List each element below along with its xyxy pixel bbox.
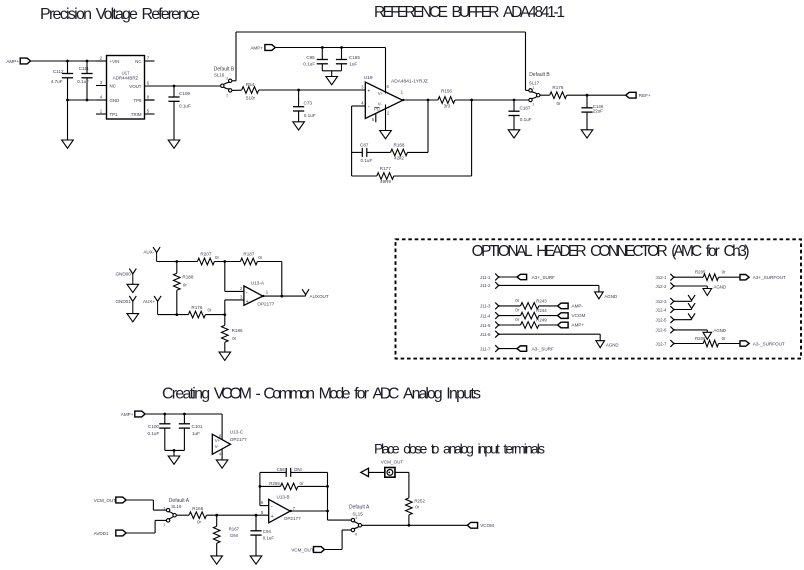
- svg-text:PrecisionVoltageReference: PrecisionVoltageReference: [40, 6, 200, 23]
- svg-text:J11-2: J11-2: [480, 283, 491, 288]
- svg-text:AUX+: AUX+: [143, 299, 155, 304]
- wire J11-3 to R243: [499, 305, 521, 307]
- ground (C73): [293, 122, 305, 130]
- svg-text:3r3: 3r3: [444, 104, 451, 109]
- svg-text:V-: V-: [215, 444, 220, 449]
- svg-text:22uF: 22uF: [593, 109, 603, 114]
- resistor R252 0r: [408, 515, 410, 525]
- wire J12-3 open: [674, 300, 692, 302]
- svg-text:0r: 0r: [515, 298, 519, 303]
- resistor R156 3r3: [438, 97, 455, 104]
- svg-text:C73: C73: [304, 101, 313, 106]
- wire feedback right leg to output: [327, 472, 329, 511]
- ground AGND (J12-2): [706, 286, 708, 289]
- svg-text:0r: 0r: [208, 307, 212, 312]
- wire J12-6 to AGND: [674, 329, 708, 331]
- svg-text:A3-_SURF: A3-_SURF: [532, 347, 554, 352]
- svg-text:R255: R255: [269, 481, 280, 486]
- capacitor C87 0.1uF: [361, 148, 363, 157]
- svg-text:AGND: AGND: [605, 294, 618, 299]
- wire R205 to A3+_SURFOUT: [719, 276, 741, 278]
- svg-text:J12-3: J12-3: [656, 299, 668, 304]
- node VOUT junction: [173, 85, 176, 88]
- svg-text:NC: NC: [110, 83, 116, 88]
- wire to U13-A pin 2: [224, 262, 226, 292]
- svg-text:U13-C: U13-C: [230, 429, 244, 434]
- svg-text:U13-B: U13-B: [277, 495, 290, 500]
- wire SL16 top pad to feedback rail: [232, 80, 236, 82]
- wire R206 to A3-_SURFOUT: [719, 343, 741, 345]
- node C146 junction: [586, 94, 589, 97]
- wire J11-4 to R244: [499, 315, 521, 317]
- connector A3-_SURFOUT: [740, 341, 749, 346]
- wire supply caps to ground: [322, 70, 341, 72]
- svg-text:-: -: [271, 504, 273, 510]
- wire feedback top rail: [236, 31, 526, 33]
- wire U13-A output to AUXOUT: [263, 295, 306, 297]
- resistor R206 0r: [703, 340, 718, 347]
- svg-text:R243: R243: [536, 299, 547, 304]
- wire R54 to U19 +input: [259, 89, 366, 91]
- port J12-4 stub: [688, 303, 695, 308]
- node C94 junction: [255, 514, 258, 517]
- svg-text:J12-4: J12-4: [656, 307, 668, 312]
- wire R178 to REF+: [567, 94, 626, 96]
- svg-text:R186: R186: [232, 328, 243, 333]
- svg-text:+: +: [271, 514, 274, 520]
- svg-text:J11-4: J11-4: [480, 313, 491, 318]
- wire U13-C V- to ground: [221, 449, 223, 460]
- svg-text:2: 2: [226, 94, 228, 98]
- svg-text:3: 3: [164, 507, 166, 511]
- svg-text:J12-2: J12-2: [656, 284, 668, 289]
- ground AGND (J11-2): [598, 285, 600, 292]
- svg-text:C94: C94: [263, 529, 272, 534]
- capacitor C56 DNI feedback: [260, 471, 286, 473]
- svg-text:GND00: GND00: [115, 271, 131, 276]
- svg-text:V+: V+: [215, 438, 221, 443]
- svg-text:REF+: REF+: [639, 93, 651, 98]
- capacitor C73 0.1uF: [298, 90, 300, 107]
- svg-text:C111: C111: [79, 66, 90, 71]
- svg-text:J12-5: J12-5: [656, 318, 668, 323]
- resistor R176 0r: [188, 311, 205, 318]
- wire J12-7 to R206: [674, 343, 703, 345]
- svg-text:R207: R207: [200, 252, 211, 257]
- wire AMP+ supply rail to U19 V+: [276, 47, 386, 49]
- wire R168 to output node: [407, 151, 428, 153]
- wire U19 output: [403, 99, 438, 101]
- svg-text:OP2177: OP2177: [230, 437, 247, 442]
- connector REF+ (output flag): [626, 92, 636, 98]
- svg-text:R187: R187: [243, 252, 254, 257]
- svg-text:0.1uF: 0.1uF: [77, 79, 89, 84]
- svg-text:0r: 0r: [722, 270, 726, 275]
- svg-text:0.1uF: 0.1uF: [304, 113, 316, 118]
- svg-text:R54: R54: [246, 82, 255, 87]
- svg-text:C100: C100: [148, 424, 159, 429]
- svg-text:+: +: [367, 88, 370, 94]
- wire SL15 common to VCOM: [362, 524, 468, 526]
- svg-text:0r: 0r: [515, 308, 519, 313]
- wire R156 to SL17: [455, 99, 529, 101]
- svg-text:GND: GND: [110, 98, 120, 103]
- resistor R166 0r: [189, 512, 207, 519]
- svg-text:49R9: 49R9: [380, 179, 391, 184]
- svg-text:0r: 0r: [258, 255, 262, 260]
- ground AGND (J11-6): [599, 334, 601, 341]
- op-amp U13-C OP2177 power section: [212, 434, 230, 454]
- svg-text:TRIM: TRIM: [131, 112, 142, 117]
- wire VCM_OUT to SL19 top pad: [126, 499, 153, 501]
- svg-text:J11-3: J11-3: [480, 304, 491, 309]
- svg-text:0.1uF: 0.1uF: [361, 158, 373, 163]
- svg-text:0r: 0r: [556, 101, 561, 106]
- svg-text:AMP+: AMP+: [250, 45, 263, 50]
- resistor R188 0r: [176, 262, 178, 274]
- op-amp U19 ADA4841-1YRJZ: [365, 82, 402, 118]
- resistor R167 DNI: [216, 515, 218, 526]
- svg-text:AMP+: AMP+: [572, 323, 585, 328]
- svg-text:V-: V-: [378, 101, 383, 106]
- svg-text:C167: C167: [520, 106, 531, 111]
- ground (input caps): [67, 100, 69, 140]
- ground (C94): [250, 556, 262, 564]
- svg-text:R188: R188: [182, 275, 193, 280]
- ground (R167): [211, 556, 223, 564]
- svg-text:0.1uF: 0.1uF: [263, 535, 275, 540]
- svg-text:J11-7: J11-7: [480, 346, 491, 351]
- svg-text:1uF: 1uF: [349, 62, 357, 67]
- svg-text:A3-_SURFOUT: A3-_SURFOUT: [753, 341, 785, 346]
- resistor R205 0r: [703, 274, 718, 281]
- svg-text:OP2177: OP2177: [257, 302, 274, 307]
- wire R207 to inverting node: [214, 261, 240, 263]
- svg-text:AUX-: AUX-: [143, 249, 154, 254]
- ground AGND (J12-6): [706, 330, 708, 332]
- svg-text:R167: R167: [229, 527, 240, 532]
- pin 5 PD stub: [375, 113, 377, 122]
- svg-text:AUXOUT: AUXOUT: [310, 294, 329, 299]
- svg-text:TP8: TP8: [133, 98, 142, 103]
- op-amp U13-B OP2177: [269, 499, 291, 522]
- wire R243 to AMP-: [539, 305, 558, 307]
- arrow off-page left: [361, 468, 369, 476]
- svg-text:C87: C87: [360, 142, 369, 147]
- wire feedback branch C87/R168: [352, 151, 363, 153]
- svg-text:C109: C109: [179, 91, 190, 96]
- svg-text:R249: R249: [536, 318, 547, 323]
- wire test point to arrow: [369, 471, 385, 473]
- capacitor C95 0.1uF: [321, 48, 323, 60]
- wire SL17 common to R178: [540, 94, 550, 96]
- resistor R177 49R9: [352, 175, 377, 177]
- svg-text:0r: 0r: [515, 317, 519, 322]
- svg-text:0r: 0r: [722, 336, 726, 341]
- wire SL16 bottom pad to R54: [232, 89, 242, 91]
- svg-text:R205: R205: [695, 270, 706, 275]
- svg-text:4.7uF: 4.7uF: [51, 79, 63, 84]
- svg-text:0r: 0r: [215, 255, 219, 260]
- port AUXOUT: [302, 289, 309, 294]
- capacitor C111 0.1uF: [86, 61, 88, 74]
- svg-text:C165: C165: [349, 55, 360, 60]
- wire J11-6 to AGND: [499, 333, 601, 335]
- svg-text:C112: C112: [53, 69, 64, 74]
- svg-text:NC: NC: [135, 59, 141, 64]
- wire R252 to test point: [395, 471, 409, 473]
- op-amp U13-A OP2177: [244, 286, 263, 305]
- svg-text:AVDD1: AVDD1: [94, 531, 109, 536]
- node feedback junction: [280, 295, 283, 298]
- node R255 right junction: [326, 485, 329, 488]
- svg-text:42k2: 42k2: [394, 155, 404, 160]
- svg-text:J11-6: J11-6: [480, 332, 491, 337]
- svg-text:C56: C56: [277, 467, 286, 472]
- svg-text:V+: V+: [378, 91, 384, 96]
- resistor R255 0r feedback: [260, 485, 281, 487]
- svg-text:VCOM: VCOM: [572, 313, 586, 318]
- svg-text:3: 3: [226, 76, 228, 80]
- dashed box optional header connector: [396, 239, 802, 358]
- node C73 junction: [297, 89, 300, 92]
- svg-text:VCM_OUT: VCM_OUT: [381, 459, 404, 464]
- svg-text:AGND: AGND: [713, 284, 726, 289]
- svg-text:AGND: AGND: [713, 328, 726, 333]
- wire R187 to output node: [257, 261, 281, 263]
- wire U17 VOUT to SL16: [145, 85, 221, 87]
- ground (U13-C V-): [216, 460, 228, 468]
- svg-text:0r: 0r: [183, 282, 187, 287]
- wire R249 to AMP+: [539, 324, 558, 326]
- svg-text:CreatingVCOM-CommonModeforADCA: CreatingVCOM-CommonModeforADCAnalogInput…: [162, 386, 481, 403]
- svg-text:AMP+: AMP+: [121, 412, 134, 417]
- svg-text:VOUT: VOUT: [129, 84, 142, 89]
- wire AMP+ supply to U13-C V+: [145, 413, 222, 415]
- node R188 bottom junction: [175, 313, 178, 316]
- svg-text:DNI: DNI: [230, 533, 238, 538]
- wire J12-4 open: [674, 309, 692, 311]
- svg-text:VCM_OUT: VCM_OUT: [291, 547, 314, 552]
- svg-text:Placeclosetoanaloginputtermina: Placeclosetoanaloginputterminals: [374, 440, 545, 456]
- svg-text:J12-1: J12-1: [656, 275, 668, 280]
- capacitor C100 0.1uF: [164, 414, 166, 424]
- svg-text:AGND: AGND: [606, 343, 619, 348]
- svg-text:SL15: SL15: [352, 512, 363, 517]
- connector AMP-: [558, 303, 569, 309]
- svg-text:R178: R178: [552, 85, 563, 90]
- IC U17 ADR444BRZ: [107, 56, 145, 120]
- svg-text:1uF: 1uF: [192, 431, 200, 436]
- ground (GND01): [127, 314, 139, 322]
- svg-text:2: 2: [533, 103, 535, 107]
- svg-text:R176: R176: [191, 305, 202, 310]
- svg-text:1: 1: [533, 86, 535, 90]
- wire SL15 bottom pad to VCM_OUT flag: [342, 529, 351, 531]
- svg-text:ADR444BRZ: ADR444BRZ: [113, 76, 139, 81]
- node R167 junction: [215, 514, 218, 517]
- svg-text:2: 2: [164, 523, 166, 527]
- ground (U19 V-): [380, 131, 392, 139]
- svg-text:0r: 0r: [300, 481, 304, 486]
- svg-text:R168: R168: [394, 142, 405, 147]
- resistor R187 0r feedback: [240, 258, 257, 265]
- port J12-5 stub: [688, 313, 695, 318]
- node output junction: [427, 99, 430, 102]
- wire R177 to post-R156 node: [394, 175, 472, 177]
- svg-text:J12-6: J12-6: [656, 328, 668, 333]
- wire ground rail to U17 GND pin: [68, 99, 107, 101]
- wire SL19 common to R166: [176, 514, 189, 516]
- svg-text:TP1: TP1: [110, 112, 119, 117]
- svg-text:510r: 510r: [246, 96, 256, 101]
- node R255 left junction: [259, 485, 262, 488]
- svg-text:R252: R252: [414, 498, 425, 503]
- svg-text:GND01: GND01: [115, 299, 131, 304]
- svg-text:U13-A: U13-A: [251, 280, 265, 285]
- svg-text:-: -: [368, 104, 370, 110]
- wire J11-7 to A3-_SURF: [499, 348, 517, 350]
- svg-text:0r: 0r: [197, 520, 202, 525]
- svg-text:R244: R244: [536, 308, 547, 313]
- connector A3+_SURFOUT: [740, 275, 749, 280]
- wire J11-1 to A3+_SURF: [499, 276, 517, 278]
- svg-text:SL17: SL17: [529, 81, 540, 86]
- svg-text:C95: C95: [306, 55, 315, 60]
- wire rail to SL17 top pad: [525, 32, 527, 90]
- svg-text:0r: 0r: [232, 336, 236, 341]
- ground (GND00): [127, 284, 139, 292]
- wire R176 to non-inverting node: [205, 314, 224, 316]
- wire J12-5 open: [674, 319, 692, 321]
- svg-text:C101: C101: [192, 424, 203, 429]
- wire U19 V- to ground: [385, 105, 387, 131]
- ground (R186): [219, 352, 231, 360]
- capacitor C167 0.1uF: [513, 100, 515, 111]
- svg-text:VCOM: VCOM: [480, 523, 494, 528]
- svg-text:R177: R177: [380, 166, 391, 171]
- resistor R207 0r: [197, 258, 214, 265]
- ground (C146): [581, 130, 593, 138]
- wire J12-1 to R205: [674, 276, 703, 278]
- svg-text:DNI: DNI: [294, 467, 302, 472]
- svg-text:0.1uF: 0.1uF: [179, 104, 191, 109]
- resistor R249 0r: [521, 322, 539, 329]
- connector VCOM (output flag): [467, 522, 477, 528]
- svg-text:-: -: [246, 290, 248, 296]
- svg-text:+: +: [246, 299, 249, 305]
- resistor R168 42k2: [391, 149, 408, 156]
- capacitor C109 0.1uF: [173, 86, 175, 97]
- svg-text:OP2177: OP2177: [284, 516, 301, 521]
- svg-text:Default A: Default A: [349, 505, 370, 511]
- node C167 junction: [513, 99, 516, 102]
- wire J11-5 to R249: [499, 324, 521, 326]
- svg-text:SL19: SL19: [171, 504, 182, 509]
- wire AVDD1 to SL19 bottom pad: [126, 532, 155, 534]
- svg-text:0.1uF: 0.1uF: [520, 117, 532, 122]
- svg-text:R156: R156: [441, 89, 452, 94]
- svg-text:+VIN: +VIN: [110, 59, 120, 64]
- svg-text:J11-5: J11-5: [480, 323, 491, 328]
- svg-text:OPTIONALHEADERCONNECTOR(AMCfor: OPTIONALHEADERCONNECTOR(AMCforCh3): [472, 243, 750, 260]
- svg-text:ADA4841-1YRJZ: ADA4841-1YRJZ: [391, 79, 428, 85]
- node R188 top junction: [175, 260, 178, 263]
- wire AUX- to R207: [157, 261, 198, 263]
- svg-text:REFERENCEBUFFERADA4841-1: REFERENCEBUFFERADA4841-1: [374, 4, 565, 21]
- resistor R178 0r: [550, 92, 567, 99]
- wire U13-B pin6 to feedback: [260, 505, 269, 507]
- resistor R186 0r: [224, 315, 226, 326]
- svg-text:AMP+: AMP+: [6, 59, 19, 64]
- svg-text:U19: U19: [364, 75, 373, 81]
- svg-text:6: 6: [356, 516, 358, 520]
- ground (supply caps): [326, 77, 338, 85]
- wire J11-2 to AGND: [499, 284, 599, 286]
- svg-text:Default B: Default B: [529, 72, 550, 78]
- wire supply caps ground rail: [165, 449, 185, 451]
- svg-text:R206: R206: [695, 336, 706, 341]
- node inverting junction: [223, 260, 226, 263]
- port J12-3 stub: [688, 295, 695, 300]
- node junction C111: [86, 60, 89, 63]
- wire R244 to VCOM: [539, 315, 558, 317]
- capacitor C146 2.2uF: [586, 95, 588, 108]
- svg-text:R166: R166: [192, 506, 203, 511]
- wire U13-B output to SL15: [290, 510, 327, 512]
- capacitor C165 1uF: [341, 48, 343, 60]
- ground (C100/C101): [168, 456, 180, 464]
- svg-text:J11-1: J11-1: [480, 275, 491, 280]
- resistor R243 0r: [521, 303, 539, 310]
- capacitor C94 0.1uF: [255, 515, 257, 531]
- connector A3+_SURF: [517, 274, 527, 279]
- ground (C109): [168, 140, 180, 148]
- resistor R244 0r: [521, 312, 539, 319]
- wire J12-2 to AGND: [674, 285, 708, 287]
- wire C87 to R168: [367, 151, 391, 153]
- node R177 junction: [470, 99, 473, 102]
- wire U19 inverting input to feedback: [352, 105, 366, 107]
- svg-text:A3+_SURFOUT: A3+_SURFOUT: [753, 275, 786, 280]
- capacitor C112 4.7uF: [67, 61, 69, 74]
- svg-text:0r: 0r: [415, 505, 419, 510]
- svg-text:0.1uF: 0.1uF: [148, 431, 160, 436]
- svg-text:SL16: SL16: [214, 73, 225, 78]
- node R252 junction: [408, 524, 411, 527]
- resistor R54 510r: [242, 87, 259, 94]
- ground (C167): [508, 130, 520, 138]
- svg-text:8: 8: [355, 533, 357, 537]
- wire R166 to U13-B +input: [207, 514, 269, 516]
- connector VCOM: [558, 313, 569, 319]
- svg-text:VCM_OUT: VCM_OUT: [94, 498, 117, 503]
- capacitor C101 1uF: [183, 414, 185, 424]
- svg-text:0.1uF: 0.1uF: [303, 62, 315, 67]
- node non-inverting junction: [223, 313, 226, 316]
- svg-text:A3+_SURF: A3+_SURF: [532, 275, 556, 280]
- connector A3-_SURF: [517, 346, 527, 351]
- connector AMP+: [558, 322, 569, 328]
- wire AUX+ to R176: [158, 314, 189, 316]
- svg-text:J12-7: J12-7: [656, 341, 668, 346]
- wire AMP+ to U17 pin 2: [31, 60, 107, 62]
- node junction C112: [66, 60, 69, 63]
- wire to U13-A pin 3: [224, 300, 226, 315]
- svg-text:AMP-: AMP-: [572, 304, 584, 309]
